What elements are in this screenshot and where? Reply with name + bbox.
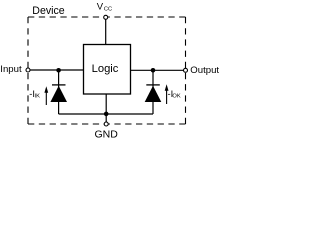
svg-text:V: V (97, 2, 104, 13)
svg-text:CC: CC (104, 6, 112, 12)
svg-text:Device: Device (32, 5, 64, 17)
svg-text:Output: Output (190, 65, 219, 76)
svg-text:GND: GND (95, 128, 119, 140)
svg-text:Logic: Logic (92, 63, 119, 75)
svg-text:IK: IK (35, 94, 41, 100)
svg-text:Input: Input (0, 64, 22, 75)
svg-text:OK: OK (172, 94, 180, 100)
